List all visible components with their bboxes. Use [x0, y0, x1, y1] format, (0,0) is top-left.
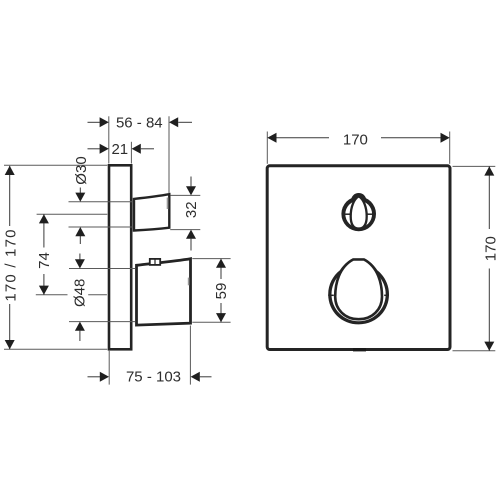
extension lines (front view): [267, 132, 495, 351]
large knob ring inner white: [332, 267, 386, 321]
ext: plate top horizontal (170/170): [4, 164, 107, 166]
svg-text:59: 59: [213, 283, 230, 300]
small knob face accent line: [167, 198, 169, 210]
ext: plate left (wall) vertical top: [108, 116, 110, 163]
small knob inner egg: [351, 196, 367, 228]
ext: plate right vertical (21): [130, 142, 132, 164]
svg-text:170: 170: [483, 236, 500, 261]
ext: O30 bottom: [69, 226, 134, 228]
ext: below large knob face (75-103): [189, 326, 191, 385]
dimension 74: [43, 214, 45, 295]
ext: front plate left top: [266, 132, 268, 164]
dimension O30: [79, 188, 81, 245]
small knob ring inner white: [345, 201, 372, 228]
large knob top button: [150, 259, 160, 265]
ext: small knob face vertical top: [168, 116, 170, 193]
large knob inner egg: [335, 260, 382, 320]
dimension O48: [79, 254, 81, 342]
ext: plate bottom horizontal (170/170): [4, 348, 107, 350]
dimension 59: [220, 259, 222, 323]
ext: front plate right top: [449, 132, 451, 164]
svg-text:21: 21: [111, 141, 128, 158]
large knob face accent line: [188, 278, 190, 286]
dimension 21: [88, 148, 155, 150]
ext: 32 top: [170, 194, 200, 196]
svg-text:170 / 170: 170 / 170: [3, 228, 20, 301]
svg-text:170: 170: [343, 131, 368, 148]
small knob (side view): [134, 194, 169, 230]
ext: 59 bottom: [192, 321, 230, 323]
extension lines (side view): [4, 116, 231, 384]
ext: O48 bottom: [69, 321, 136, 323]
ext: 59 top: [192, 258, 230, 260]
svg-text:74: 74: [36, 252, 53, 269]
dimension 75-103: [88, 376, 212, 378]
dimension 32: [190, 177, 192, 251]
svg-text:56 - 84: 56 - 84: [116, 115, 163, 132]
ext: O30 top: [69, 201, 134, 203]
large knob (side view): [137, 259, 191, 325]
large knob crossbar: [328, 294, 334, 296]
ext: 74 bottom (large knob axis): [36, 294, 68, 296]
svg-text:75 - 103: 75 - 103: [126, 369, 181, 386]
ext: 32 bottom: [170, 229, 200, 231]
ext: front plate top right: [453, 165, 496, 167]
ext: 74 top (small knob axis): [37, 213, 108, 215]
front plate 170x170: [267, 166, 450, 350]
dimension 170/170 (left): [9, 166, 11, 349]
front plate bottom notch: [353, 348, 366, 351]
small knob (front view) dark ring disc: [341, 197, 376, 232]
dimension 56-84: [88, 121, 193, 123]
svg-text:Ø30: Ø30: [73, 156, 90, 184]
small knob crossbar: [345, 213, 351, 215]
ext: front plate bottom right: [453, 350, 496, 352]
wall plate (side view): [109, 165, 131, 349]
ext: O48 top: [69, 268, 136, 270]
large knob (front view) dark silhouette: [328, 258, 389, 324]
svg-text:32: 32: [183, 201, 200, 218]
ext: below plate left (75-103): [108, 351, 110, 385]
small knob top bump: [351, 193, 367, 204]
dimension 170 (right): [488, 166, 490, 350]
dimension 170 (top): [277, 137, 441, 139]
svg-text:Ø48: Ø48: [71, 279, 88, 307]
